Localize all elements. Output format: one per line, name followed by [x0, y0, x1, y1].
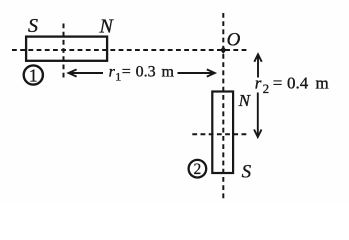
- svg-text:0.3: 0.3: [136, 64, 156, 81]
- wire: main horizontal dashed axis line: [12, 49, 249, 51]
- svg-text:1: 1: [29, 65, 38, 85]
- svg-text:O: O: [227, 30, 241, 51]
- svg-text:0.4: 0.4: [287, 74, 309, 93]
- svg-text:=: =: [273, 74, 283, 93]
- svg-text:=: =: [122, 64, 131, 81]
- svg-text:m: m: [316, 74, 329, 93]
- arrow right (r1 dimension, pointing to O axis): [178, 72, 214, 74]
- svg-text:N: N: [99, 15, 115, 37]
- svg-text:S: S: [28, 15, 38, 37]
- label r2 = 0.4 m: [255, 74, 329, 96]
- svg-text:N: N: [238, 91, 252, 110]
- svg-text:2: 2: [263, 81, 270, 96]
- svg-text:2: 2: [194, 161, 202, 178]
- wire: vertical dashed line through O and magnet 2: [222, 13, 224, 201]
- arrow up (r2 dimension, pointing to O axis): [257, 56, 259, 78]
- arrow left (r1 dimension, pointing to magnet 1 center): [70, 72, 103, 74]
- svg-text:r: r: [255, 74, 262, 93]
- label circled 1 (magnet 1 designator): [24, 65, 43, 84]
- wire: horizontal dashed line through magnet 2 center: [192, 133, 249, 135]
- label circled 2 (magnet 2 designator): [189, 160, 207, 178]
- svg-text:S: S: [242, 162, 252, 183]
- node O (point dot): [220, 46, 226, 54]
- arrow down (r2 dimension, pointing to magnet 2 center): [257, 93, 259, 136]
- label r1 = 0.3 m: [109, 64, 175, 84]
- magnet 1 (horizontal bar magnet): [26, 37, 107, 61]
- magnet 2 (vertical bar magnet): [212, 92, 233, 174]
- svg-text:m: m: [162, 64, 175, 81]
- svg-text:1: 1: [115, 69, 121, 83]
- wire: vertical dashed line through magnet 1 center: [63, 24, 65, 78]
